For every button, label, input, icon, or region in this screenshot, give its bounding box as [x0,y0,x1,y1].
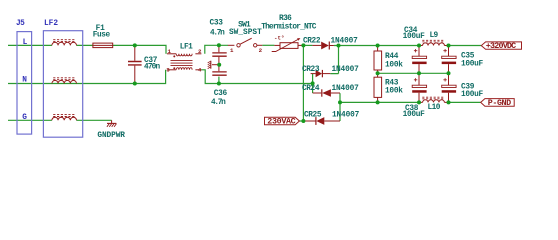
capacitor C33 [210,19,227,64]
svg-text:CR22: CR22 [303,38,321,46]
wire + rail L9 to +320VDC [449,45,482,47]
LF1 core [171,61,193,66]
junction C39 bottom [447,100,451,104]
wire mid rail [378,72,449,74]
common-mode choke LF1 [166,43,202,73]
svg-text:2: 2 [259,47,263,54]
wire CR24 anode down to - rail [339,93,341,121]
wire L row LF2 to fuse [76,44,93,46]
junction C35/C39 mid [447,71,451,75]
svg-text:1N4007: 1N4007 [331,38,359,46]
wire N row LF1 pin4 to bridge [201,70,312,84]
wire + rail CR22 to L9 [334,45,419,47]
svg-text:3: 3 [166,66,170,73]
LF1 bottom winding [176,68,192,70]
wire fuse to LF1 jog [113,45,166,53]
svg-text:1N4007: 1N4007 [332,85,360,93]
LF2 winding G row [52,115,77,121]
junction R43 bottom [376,100,380,104]
LF1 pin 4 [195,69,201,71]
diode CR22 [303,38,358,50]
svg-text:CR24: CR24 [302,85,320,93]
svg-text:P-GND: P-GND [488,98,511,108]
wire - rail L10 to P-GND [449,101,481,103]
svg-text:1: 1 [167,48,171,55]
junction C33/C36 mid [217,63,221,67]
svg-text:Thermistor_NTC: Thermistor_NTC [261,23,316,31]
junction R44/R43 mid [376,71,380,75]
LF1 top winding [176,54,192,56]
inductor L9 [419,32,449,46]
thermistor R36 [261,15,316,52]
junction C35 top [447,44,451,48]
svg-text:1N4007: 1N4007 [332,112,360,120]
svg-text:+320VDC: +320VDC [486,41,516,51]
LF2 winding L row [52,40,77,46]
chassis ground at C33/C36 midpoint [208,61,218,69]
junction R44 top [376,44,380,48]
capacitor C37 [128,45,160,83]
wire 230VAC to node A [299,120,303,122]
wire node A vertical [302,45,304,121]
svg-text:230VAC: 230VAC [267,117,295,127]
junction C36 bottom [217,82,221,86]
svg-text:4.7n: 4.7n [211,99,226,107]
LF1 pin 2 [195,53,201,55]
svg-text:1: 1 [230,47,234,54]
svg-text:100uF: 100uF [403,111,426,119]
wire C36 bottom [218,77,220,84]
capacitor C38 [403,73,427,119]
svg-text:100k: 100k [385,88,403,96]
junction C38 bottom [417,100,421,104]
svg-text:4.7n: 4.7n [210,29,225,37]
svg-text:2: 2 [198,48,202,55]
svg-text:100uF: 100uF [461,60,484,68]
svg-text:R36: R36 [279,15,292,23]
label P-GND [481,98,515,108]
svg-text:J5: J5 [16,20,25,28]
LF2 winding N row [52,78,77,84]
junction N bridge [311,81,315,85]
svg-text:1N4007: 1N4007 [332,66,360,74]
svg-text:100uF: 100uF [461,91,484,99]
svg-text:R43: R43 [385,80,399,88]
svg-text:Fuse: Fuse [93,31,111,39]
junction C34/C38 mid [417,71,421,75]
wire G row LF2 to GNDPWR [76,119,111,121]
svg-text:C33: C33 [210,19,224,27]
junction node A bottom [301,119,305,123]
diode CR23 [302,66,359,77]
junction fuse output [133,43,137,47]
svg-text:CR23: CR23 [302,66,320,74]
svg-text:100k: 100k [385,61,403,69]
capacitor C36 [211,65,228,107]
wire LF1 pin2 riser to SW1 [205,45,228,54]
wire - rail to L10 [340,101,419,103]
svg-text:SW_SPST: SW_SPST [229,29,262,37]
wire N row J5 to LF1 riser [8,70,166,84]
diode CR25 [303,112,359,125]
label 230VAC [265,117,300,127]
junction - rail CR24 [338,100,342,104]
svg-text:100uF: 100uF [403,33,426,41]
junction C33 top [217,43,221,47]
switch SW1 [228,21,263,54]
connector J5 [17,32,32,135]
svg-text:470n: 470n [144,63,160,71]
wire CR23 cathode to + rail [330,46,338,74]
svg-text:C36: C36 [214,90,228,98]
resistor R44 [374,46,403,74]
svg-text:R44: R44 [385,53,399,61]
junction + rail CR23 [337,44,341,48]
svg-text:GNDPWR: GNDPWR [97,132,125,140]
junction node A top [301,43,305,47]
LF1 pin 3 [167,69,176,71]
svg-text:-t°: -t° [274,35,284,42]
wire SW1 to R36 [262,44,274,46]
svg-text:L10: L10 [428,104,441,112]
label +320VDC [481,41,521,51]
svg-text:L9: L9 [430,32,439,40]
line filter LF2 [43,31,82,138]
capacitor C34 [403,27,427,74]
svg-text:LF2: LF2 [44,20,58,28]
ground GNDPWR [97,120,125,140]
svg-text:LF1: LF1 [180,43,193,51]
wire bridge B vertical [312,74,314,93]
diode CR24 [302,85,359,97]
inductor L10 [419,97,449,112]
capacitor C35 [442,46,484,74]
wire G row J5 to LF2 [8,119,52,121]
wire R36 to CR22 [303,44,312,46]
junction C37 bottom [133,82,137,86]
resistor R43 [374,73,403,102]
wire L row J5 to LF2 winding [8,44,52,46]
LF1 pin 1 [167,53,176,55]
svg-text:4: 4 [198,66,202,73]
fuse F1 [93,25,113,47]
capacitor C39 [442,73,484,102]
junction C34 top [417,44,421,48]
svg-text:CR25: CR25 [304,112,322,120]
